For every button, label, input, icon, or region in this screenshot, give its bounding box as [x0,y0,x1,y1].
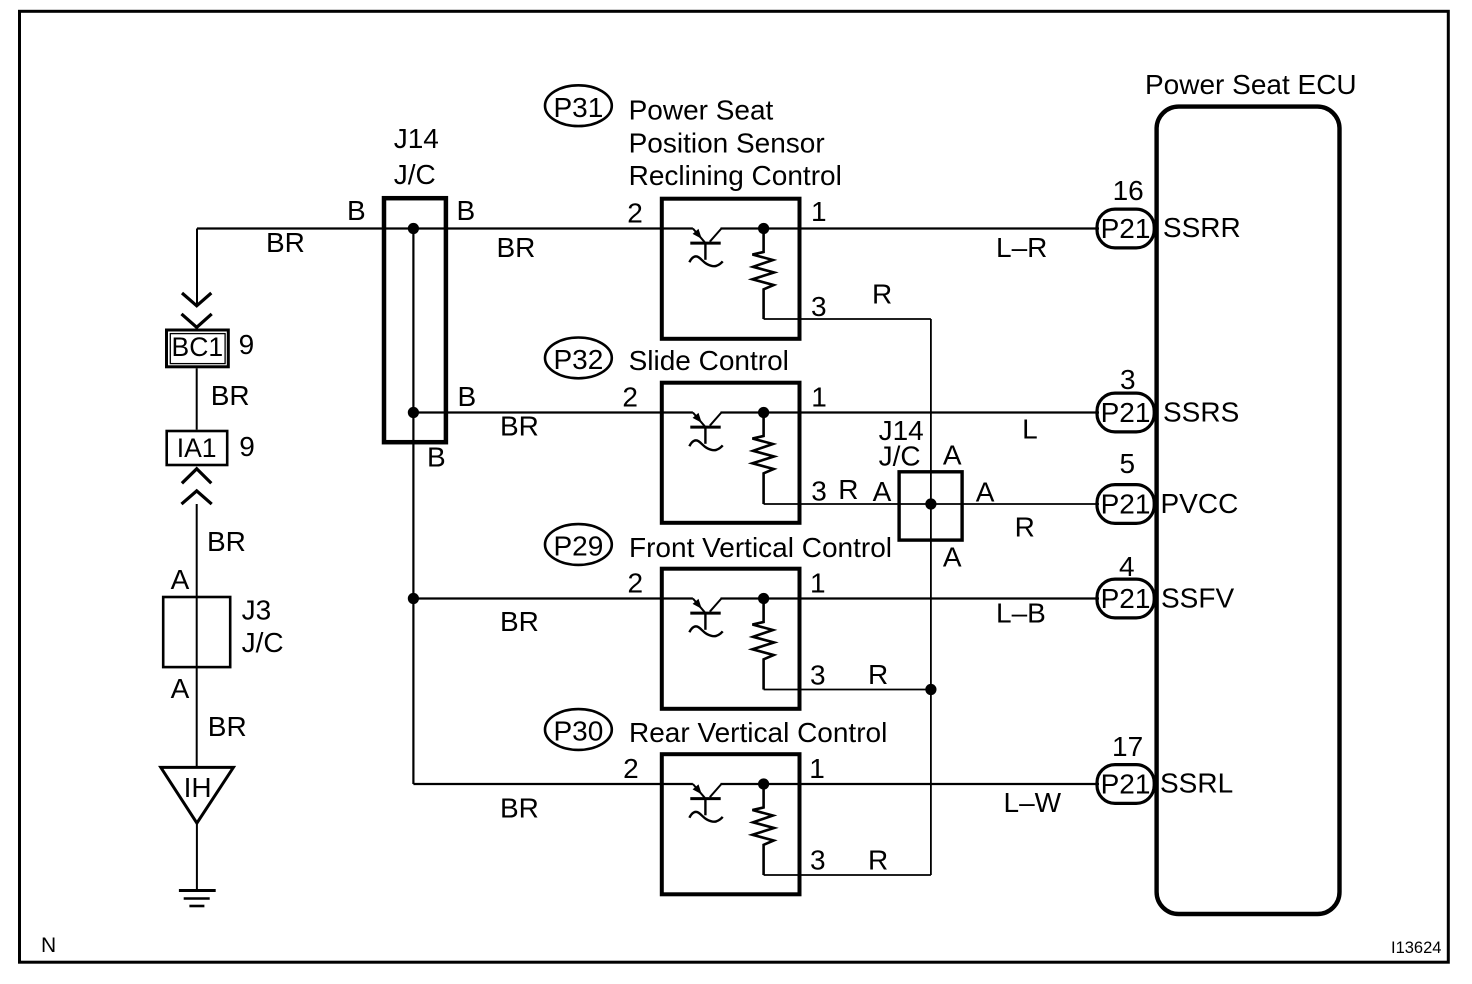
svg-text:BR: BR [207,526,246,557]
svg-text:BR: BR [266,227,305,258]
svg-text:J/C: J/C [242,627,284,658]
connector IA1 [167,431,228,465]
svg-text:L: L [1022,414,1038,445]
svg-text:I13624: I13624 [1391,939,1441,957]
svg-text:Power Seat ECU: Power Seat ECU [1145,69,1357,100]
svg-text:P21: P21 [1101,397,1151,428]
wire row1 right (L-R to SSRR) [721,227,1100,229]
svg-text:R: R [1015,512,1035,543]
wire P31 pin3 (R) [764,318,931,320]
wire P29 pin3 (R) [764,689,931,691]
connector arrow up 1 [182,469,211,484]
wire left drop at node [196,229,198,306]
junction dot J14 row1 [408,223,419,234]
svg-text:BR: BR [500,606,539,637]
svg-text:BR: BR [497,232,536,263]
sensor P32 box [662,383,800,523]
svg-text:Front Vertical Control: Front Vertical Control [629,532,892,563]
svg-text:B: B [457,195,476,226]
svg-text:2: 2 [622,382,638,413]
junction dot small J/C [925,498,936,509]
junction dot P29 pin3 [925,684,936,695]
svg-text:P21: P21 [1101,213,1151,244]
connector P21 pin 5 [1097,485,1154,524]
svg-text:Slide Control: Slide Control [629,345,789,376]
svg-text:J/C: J/C [879,441,921,472]
sensor P29 ellipse [545,524,612,565]
resistor P32 [752,413,774,505]
svg-text:1: 1 [811,196,827,227]
junction dot J14 row2 [408,407,419,418]
wire row2 right (L to SSRS) [721,411,1100,413]
svg-text:P30: P30 [553,716,603,747]
wire vertical bus x=931 [930,319,932,875]
svg-text:N: N [41,934,56,957]
wire row3 left (J14 to P29) [413,597,693,599]
sensor P31 ellipse [545,85,612,126]
wire P32 pin3 (R A to PVCC) [764,503,1099,505]
sensor P30 ellipse [545,709,612,750]
svg-text:P21: P21 [1101,583,1151,614]
svg-text:17: 17 [1112,731,1143,762]
svg-text:R: R [838,474,858,505]
wire IH to ground [196,823,198,889]
svg-text:BR: BR [500,793,539,824]
svg-text:L–B: L–B [996,598,1046,629]
connector BC1 [167,330,229,367]
wire BC1 to IA1 (BR) [196,368,198,429]
svg-text:3: 3 [1120,364,1136,395]
junction connector J3 [163,597,230,667]
svg-text:Reclining Control: Reclining Control [629,160,842,191]
svg-text:16: 16 [1113,175,1144,206]
junction dot P30 [758,778,769,789]
wire P30 pin3 (R) [764,874,931,876]
svg-text:SSRR: SSRR [1163,212,1241,243]
svg-text:5: 5 [1120,448,1136,479]
svg-text:Power Seat: Power Seat [629,95,774,126]
svg-text:SSRL: SSRL [1160,768,1233,799]
svg-text:P21: P21 [1101,489,1151,520]
junction dot row3 branch [408,593,419,604]
wire row1 left (B/BR from node to J14) [197,227,693,229]
sensor P31 box [662,199,800,339]
svg-text:A: A [873,476,892,507]
svg-text:R: R [868,659,888,690]
svg-text:A: A [943,542,962,573]
svg-text:B: B [458,381,477,412]
svg-text:P29: P29 [553,531,603,562]
svg-text:3: 3 [811,291,827,322]
svg-text:IH: IH [184,772,212,803]
transistor P31 [689,229,722,267]
svg-text:SSFV: SSFV [1161,583,1234,614]
svg-text:J3: J3 [242,595,272,626]
sensor P30 box [662,754,800,894]
transistor P30 [689,784,722,822]
svg-text:R: R [872,279,892,310]
svg-text:2: 2 [627,198,643,229]
svg-text:1: 1 [811,382,827,413]
wire row3 right (L-B to SSFV) [721,597,1100,599]
connector arrow down 1 [182,293,211,306]
transistor P32 [689,413,722,451]
sensor P32 ellipse [545,338,612,379]
svg-text:B: B [347,195,366,226]
connector P21 pin 17 [1097,765,1154,804]
svg-text:9: 9 [239,329,255,360]
svg-text:1: 1 [810,568,826,599]
svg-text:BR: BR [211,380,250,411]
connector P21 pin 3 [1097,393,1154,432]
junction connector J14 small box [899,472,962,540]
svg-text:3: 3 [811,476,827,507]
sensor P29 box [662,569,800,709]
wire row4 right (L-W to SSRL) [721,783,1100,785]
ground triangle IH [161,767,234,823]
svg-text:P31: P31 [553,92,603,123]
svg-text:BR: BR [500,411,539,442]
svg-text:L–W: L–W [1004,787,1062,818]
svg-text:A: A [943,440,962,471]
svg-text:L–R: L–R [996,232,1047,263]
junction connector J14 box [384,198,446,442]
svg-text:J/C: J/C [394,159,436,190]
resistor P30 [752,784,774,875]
svg-text:9: 9 [239,431,255,462]
connector P21 pin 16 [1097,209,1154,248]
svg-text:3: 3 [810,845,826,876]
junction dot P29 [758,593,769,604]
svg-text:A: A [171,564,190,595]
svg-text:R: R [868,845,888,876]
wire J14 vertical bus [412,229,414,785]
svg-text:1: 1 [809,753,825,784]
connector arrow up 2 [182,491,212,504]
svg-text:IA1: IA1 [177,433,217,463]
svg-text:B: B [427,442,446,473]
wire IA1 to IH (BR) [196,504,198,767]
ground symbol [179,891,216,907]
svg-text:A: A [976,477,995,508]
svg-text:SSRS: SSRS [1163,397,1239,428]
resistor P29 [752,599,774,690]
wire row2 left (J14 to P32) [413,411,693,413]
transistor P29 [689,599,722,637]
wire row4 left (J14 to P30) [413,783,693,785]
svg-text:BR: BR [208,711,247,742]
junction dot P32 [758,407,769,418]
connector P21 pin 4 [1097,579,1154,618]
svg-text:J14: J14 [394,123,439,154]
connector arrow down 2 [182,314,212,327]
svg-text:A: A [171,673,190,704]
svg-text:P32: P32 [553,344,603,375]
svg-text:4: 4 [1119,551,1135,582]
junction dot P31 [758,223,769,234]
svg-text:Rear Vertical Control: Rear Vertical Control [629,717,887,748]
Power Seat ECU box [1157,107,1340,914]
svg-text:Position Sensor: Position Sensor [629,128,825,159]
resistor P31 [752,229,774,320]
svg-text:P21: P21 [1101,769,1151,800]
svg-text:3: 3 [810,660,826,691]
svg-text:2: 2 [628,568,644,599]
svg-text:2: 2 [623,753,639,784]
svg-text:PVCC: PVCC [1161,488,1239,519]
svg-text:BC1: BC1 [172,332,224,362]
